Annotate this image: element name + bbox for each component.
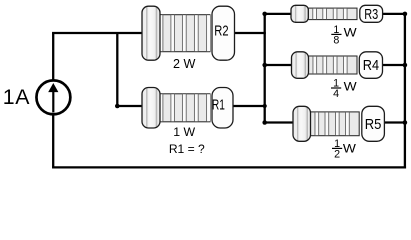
svg-text:2: 2 (334, 149, 340, 161)
svg-text:R4: R4 (363, 57, 379, 74)
svg-text:1 W: 1 W (173, 125, 195, 139)
svg-text:R5: R5 (365, 116, 382, 133)
svg-text:W: W (344, 80, 358, 94)
svg-text:R1: R1 (212, 97, 225, 114)
svg-text:R3: R3 (364, 6, 378, 23)
svg-text:8: 8 (333, 35, 339, 47)
svg-text:W: W (344, 26, 358, 40)
svg-text:1A: 1A (3, 85, 30, 109)
svg-text:2 W: 2 W (173, 57, 196, 71)
svg-text:4: 4 (333, 88, 339, 100)
svg-text:R1 = ?: R1 = ? (169, 142, 205, 156)
svg-text:R2: R2 (214, 23, 228, 40)
svg-text:W: W (343, 142, 357, 156)
